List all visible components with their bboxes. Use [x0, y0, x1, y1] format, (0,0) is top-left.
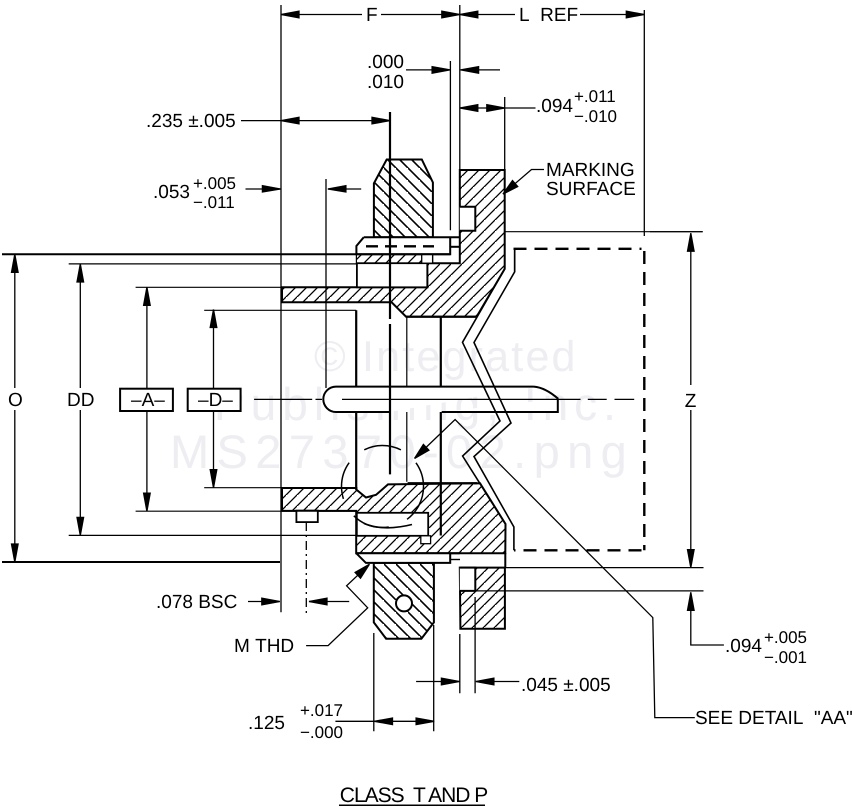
break zigzag inner: [463, 269, 506, 530]
svg-text:MS27370-02.png: MS27370-02.png: [170, 425, 634, 478]
svg-text:.000: .000: [367, 52, 404, 73]
svg-text:+.005: +.005: [764, 628, 807, 647]
svg-text:DD: DD: [67, 390, 94, 411]
svg-text:O: O: [8, 390, 23, 411]
A ext lines: [136, 287, 357, 511]
svg-text:+.005: +.005: [193, 174, 236, 193]
svg-text:Z: Z: [685, 391, 697, 412]
svg-text:–A–: –A–: [131, 390, 165, 411]
dimension D: [213, 310, 215, 488]
hatched lower body/insert/panel section: [282, 483, 506, 553]
svg-text:−.011: −.011: [193, 193, 235, 212]
dimension .235: [241, 120, 390, 122]
svg-text:−.010: −.010: [574, 107, 617, 126]
watermark: [170, 333, 634, 478]
svg-text:–D–: –D–: [198, 390, 233, 411]
svg-text:.125: .125: [248, 713, 285, 734]
svg-text:−.001: −.001: [764, 648, 807, 667]
dimension L REF: [460, 14, 645, 16]
Z top tick: [650, 231, 703, 233]
dimension O: [14, 254, 16, 562]
datum box A: [120, 389, 173, 411]
hatched lower flange block: [460, 568, 505, 629]
dimension Z: [690, 233, 692, 567]
safety wire hole in lower nut: [396, 595, 412, 611]
thread relief notch upper: [422, 254, 433, 263]
shell face line lower (ref for .094): [476, 567, 704, 569]
flange notch lower (white groove): [460, 568, 476, 591]
svg-text:.010: .010: [367, 72, 404, 93]
ext line flange right face x=504.7 above part: [504, 97, 506, 170]
break zigzag outer: [474, 249, 515, 551]
ext line left face x=281: [280, 5, 282, 612]
svg-text:.235 ±.005: .235 ±.005: [146, 111, 236, 132]
dimension .078 BSC: [248, 601, 349, 603]
datum box D: [188, 389, 241, 411]
dimension .045: [416, 681, 519, 683]
body left face below pin: [355, 412, 357, 490]
svg-text:F: F: [366, 5, 378, 26]
upper washer split dashed line: [366, 245, 434, 247]
svg-text:SURFACE: SURFACE: [546, 179, 636, 200]
body left face above pin: [355, 310, 357, 386]
dimension .125: [335, 720, 434, 722]
polarizing key block (white): [296, 511, 317, 522]
O ext lines: [2, 253, 450, 255]
DD ext lines: [69, 264, 357, 536]
mating shell seam line upper: [505, 231, 703, 233]
detail AA dashed circle: [342, 446, 424, 528]
upper washer step: [450, 246, 460, 248]
lower washer step: [450, 559, 460, 561]
dimension .053: [246, 188, 362, 190]
bushing right line: [440, 317, 442, 536]
lower washer (white trapezoid): [356, 553, 460, 563]
svg-text:© Integrated: © Integrated: [314, 333, 578, 381]
ext line x=326: [325, 179, 327, 388]
svg-text:+.017: +.017: [300, 701, 343, 720]
dimension F: [281, 14, 460, 16]
hex nut upper (hatched): [374, 160, 433, 238]
ext line x=450.4: [449, 61, 451, 230]
bore line upper (D): [204, 309, 356, 311]
flange right face lower segment: [504, 553, 506, 567]
svg-text:MARKING: MARKING: [546, 160, 635, 181]
ext lines for .045: [460, 597, 475, 693]
lower cavity box (white) with glass meniscus: [357, 513, 428, 536]
leader MARKING SURFACE: [503, 170, 544, 195]
phantom mating connector dashed rectangle: [514, 249, 645, 551]
hatched upper thin grommet strip: [356, 254, 432, 263]
insert shoulder line lower: [408, 482, 477, 484]
upper cavity box (white): [357, 263, 427, 287]
dimension A: [146, 287, 148, 511]
bushing left line: [406, 316, 408, 482]
dimension .094 +.005/-.001 stem: [691, 592, 724, 645]
svg-text:.053: .053: [153, 182, 190, 203]
ext lines below nut for .125: [374, 625, 434, 731]
insert shoulder line upper: [406, 316, 477, 318]
glass meniscus arc: [364, 524, 412, 528]
pin centerline: [254, 398, 634, 400]
svg-text:M THD: M THD: [234, 636, 294, 657]
hatched upper body/flange/panel section: [282, 170, 505, 317]
flange notch upper (white groove): [460, 207, 476, 231]
dimension .094 +.011/-.010: [460, 107, 536, 109]
notch depth line lower (ref for .094): [475, 590, 703, 592]
D ext line lower: [204, 487, 346, 489]
phantom rect solid corner upper: [514, 249, 516, 272]
svg-text:.094: .094: [725, 636, 762, 657]
contact pin: [323, 387, 558, 412]
upper washer (white trapezoid): [356, 237, 459, 254]
svg-text:−.000: −.000: [300, 723, 343, 742]
ext line x=390 (datum): [389, 112, 391, 474]
svg-text:.078 BSC: .078 BSC: [156, 592, 237, 613]
dimension DD: [79, 264, 81, 535]
hex nut lower (hatched): [374, 563, 434, 639]
svg-text:L REF: L REF: [519, 5, 578, 26]
svg-text:CLASS T AND P: CLASS T AND P: [340, 784, 487, 807]
key centerline dash-dot: [305, 522, 307, 613]
ext line flange face x=459.8: [459, 5, 461, 170]
dimension .000/.010: [406, 69, 500, 71]
svg-text:SEE DETAIL "AA": SEE DETAIL "AA": [695, 708, 852, 729]
ext line L REF right x=644.3: [643, 10, 645, 236]
svg-text:.094: .094: [536, 96, 573, 117]
svg-text:.045 ±.005: .045 ±.005: [521, 675, 611, 696]
svg-text:+.011: +.011: [574, 87, 616, 106]
thread relief notch lower: [421, 536, 431, 544]
leader SEE DETAIL AA: [415, 420, 695, 718]
leader M THD: [306, 564, 369, 645]
